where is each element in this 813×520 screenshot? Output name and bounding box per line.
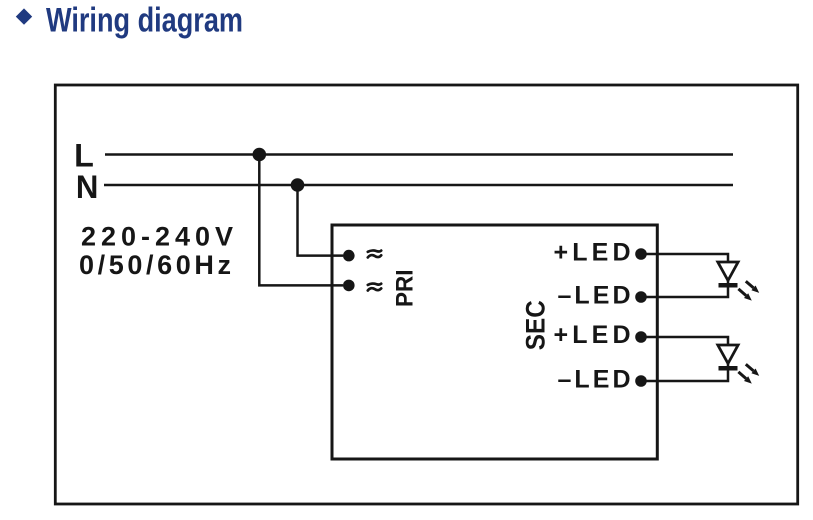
svg-text:SEC: SEC <box>520 300 550 350</box>
svg-text:N: N <box>76 169 99 205</box>
svg-text:+LED: +LED <box>554 321 631 349</box>
svg-text:PRI: PRI <box>391 269 418 307</box>
svg-text:Wiring diagram: Wiring diagram <box>46 1 243 39</box>
svg-text:–LED: –LED <box>558 282 631 310</box>
svg-text:220-240V: 220-240V <box>81 221 233 251</box>
svg-text:0/50/60Hz: 0/50/60Hz <box>79 250 231 280</box>
svg-text:+LED: +LED <box>554 239 631 267</box>
svg-text:–LED: –LED <box>558 366 631 394</box>
